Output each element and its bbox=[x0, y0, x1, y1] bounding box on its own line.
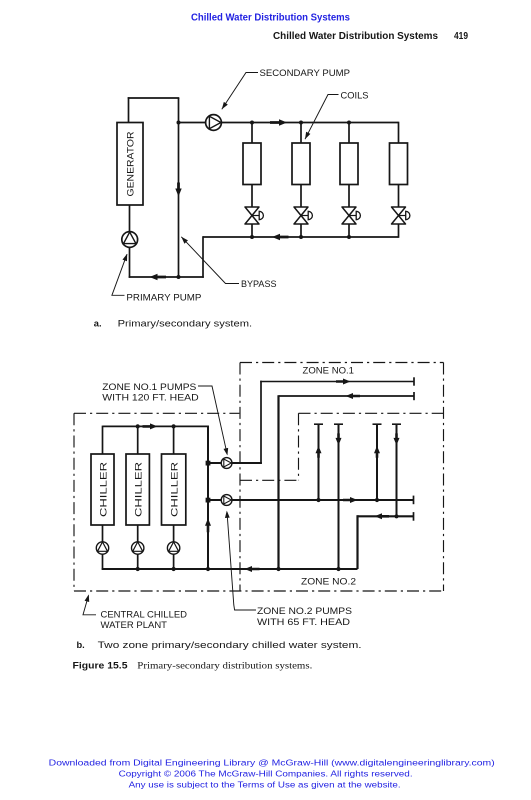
wire: zone 2 return main bbox=[358, 515, 414, 517]
leader zone 1 pumps bbox=[198, 386, 227, 454]
wire: coil return line bbox=[203, 236, 399, 238]
coil 2 wire to valve bbox=[300, 185, 302, 208]
valve 1 wire to return bbox=[251, 224, 253, 237]
zone 2 box top bbox=[299, 412, 444, 414]
flow arrow left zone 2 return bbox=[375, 513, 390, 519]
wire: branch to secondary pump bbox=[179, 122, 206, 124]
leader bypass bbox=[181, 237, 239, 284]
valve 3 bbox=[342, 207, 356, 224]
wire: primary pump to bottom line bbox=[129, 247, 131, 277]
coil 4 bbox=[390, 143, 408, 185]
wire: loop top line (diagram a) bbox=[128, 97, 180, 99]
zone riser 1 bbox=[318, 424, 320, 500]
svg-text:SECONDARY PUMP: SECONDARY PUMP bbox=[260, 68, 351, 78]
coil 3 drop wire bbox=[348, 123, 350, 144]
junction dots return line bbox=[250, 235, 254, 239]
svg-text:WITH 65 FT. HEAD: WITH 65 FT. HEAD bbox=[257, 617, 350, 627]
coil columns bbox=[243, 122, 410, 238]
leader zone 2 pumps bbox=[227, 512, 256, 610]
zone pump 1 bbox=[221, 458, 232, 469]
junction dots supply line bbox=[250, 121, 254, 125]
valve 4 wire to return bbox=[398, 224, 400, 238]
bypass line bbox=[178, 98, 180, 277]
svg-text:CHILLER: CHILLER bbox=[98, 462, 108, 517]
chiller pump 1 bbox=[96, 542, 108, 554]
zone riser 2 bbox=[338, 424, 340, 569]
zone pump 2 bbox=[221, 495, 232, 506]
svg-text:WATER PLANT: WATER PLANT bbox=[101, 620, 168, 630]
valve 3 wire to return bbox=[348, 224, 350, 237]
junction square riser/pump1 stub bbox=[206, 461, 211, 466]
svg-text:ZONE NO.2 PUMPS: ZONE NO.2 PUMPS bbox=[257, 606, 352, 616]
valve 1 bbox=[245, 207, 259, 224]
wire: chiller 3 to pump bbox=[173, 525, 175, 542]
zone boundary inner horizontal bbox=[240, 479, 299, 481]
chiller 2 bbox=[126, 454, 149, 525]
svg-text:Two zone primary/secondary chi: Two zone primary/secondary chilled water… bbox=[98, 640, 362, 650]
junction dot header/chiller2 bbox=[136, 424, 140, 428]
svg-text:WITH 120 FT. HEAD: WITH 120 FT. HEAD bbox=[102, 393, 199, 403]
junction square riser/pump2 stub bbox=[206, 498, 211, 503]
primary pump P1 bbox=[122, 232, 138, 248]
coil 4 wire to valve bbox=[398, 185, 400, 208]
flow arrow left on return line bbox=[272, 234, 289, 240]
junction dot zone 2 return / riser 4 bbox=[394, 514, 398, 518]
leader coils bbox=[305, 95, 339, 140]
svg-text:ZONE NO.1 PUMPS: ZONE NO.1 PUMPS bbox=[102, 382, 196, 392]
chiller 1 bbox=[91, 454, 114, 525]
flow arrow left on bottom line bbox=[150, 274, 167, 280]
wire: zone 1 supply main bbox=[260, 381, 414, 383]
svg-text:CENTRAL CHILLED: CENTRAL CHILLED bbox=[101, 610, 188, 620]
svg-text:GENERATOR: GENERATOR bbox=[126, 131, 136, 196]
flow arrow up on riser bbox=[205, 518, 211, 532]
end tick zone 1 return bbox=[413, 392, 415, 400]
junction dot bypass/bottom line bbox=[177, 275, 181, 279]
wire: stub to zone pump 1 bbox=[208, 462, 222, 464]
shared right boundary bbox=[443, 363, 445, 592]
zone 1 box top bbox=[240, 362, 444, 364]
svg-text:a.: a. bbox=[94, 319, 102, 329]
flow arrow right on supply line bbox=[270, 119, 287, 125]
svg-text:419: 419 bbox=[454, 31, 469, 42]
flow arrow down on bypass bbox=[175, 183, 181, 197]
junction dots return header bbox=[136, 567, 140, 571]
zone 1 box left / plant right boundary bbox=[239, 363, 241, 592]
svg-text:CHILLER: CHILLER bbox=[134, 462, 144, 517]
svg-text:Chilled Water Distribution Sys: Chilled Water Distribution Systems bbox=[191, 13, 350, 24]
end tick zone 2 return bbox=[413, 512, 415, 521]
svg-text:CHILLER: CHILLER bbox=[169, 462, 179, 517]
wire: loop left vertical to generator top bbox=[128, 97, 130, 122]
flow arrow right zone 2 supply bbox=[343, 497, 358, 503]
end tick zone 2 supply bbox=[413, 496, 415, 505]
junction dot bypass/pump branch bbox=[177, 121, 181, 125]
zone 2 box left bbox=[298, 413, 300, 480]
svg-text:Chilled Water Distribution Sys: Chilled Water Distribution Systems bbox=[273, 31, 438, 42]
valve 2 wire to return bbox=[300, 224, 302, 237]
wire: return step vertical bbox=[202, 236, 204, 278]
wire: chiller 1 top drop bbox=[102, 426, 104, 454]
svg-text:BYPASS: BYPASS bbox=[241, 279, 277, 289]
wire: bottom return line bbox=[129, 276, 204, 278]
chiller 3 bbox=[162, 454, 186, 525]
plant box top bbox=[74, 412, 239, 414]
wire: chiller 1 to pump bbox=[102, 525, 104, 542]
generator bbox=[117, 123, 143, 206]
flow arrow left zone 1 return bbox=[346, 393, 361, 399]
plant box left bbox=[73, 413, 75, 591]
svg-text:PRIMARY PUMP: PRIMARY PUMP bbox=[126, 293, 201, 303]
shared bottom boundary bbox=[74, 590, 444, 592]
svg-text:Primary-secondary distribution: Primary-secondary distribution systems. bbox=[137, 662, 312, 672]
coil 4 drop wire bbox=[398, 122, 400, 143]
coil 2 bbox=[292, 143, 310, 185]
svg-text:Copyright © 2006 The McGraw-Hi: Copyright © 2006 The McGraw-Hill Compani… bbox=[119, 768, 413, 778]
leader central plant bbox=[83, 596, 96, 615]
leader primary pump bbox=[112, 254, 127, 295]
wire: generator bottom to primary pump bbox=[129, 205, 131, 232]
coil 1 bbox=[243, 143, 261, 185]
labels diagram a bbox=[126, 68, 368, 303]
flow arrow right on supply header bbox=[143, 423, 158, 429]
wire: zone 1 supply riser bbox=[260, 381, 262, 464]
labels diagram b bbox=[101, 365, 357, 630]
wire: zone pump 1 outlet bbox=[232, 462, 262, 464]
svg-text:Any use is subject to the Term: Any use is subject to the Terms of Use a… bbox=[129, 780, 401, 790]
wire: pump 1 to return header bbox=[102, 554, 104, 570]
secondary pump P2 bbox=[206, 115, 222, 131]
svg-text:Figure 15.5: Figure 15.5 bbox=[73, 661, 128, 671]
wire: zone 1 return riser bbox=[277, 395, 279, 569]
wire: stub to zone pump 2 bbox=[208, 499, 222, 501]
wire: zone 2 return drop bbox=[356, 515, 358, 569]
wire: pump 3 to return header bbox=[173, 554, 175, 569]
coil 2 drop wire bbox=[300, 123, 302, 144]
svg-text:COILS: COILS bbox=[341, 90, 369, 100]
wire: plant riser bbox=[207, 426, 209, 569]
svg-text:Primary/secondary system.: Primary/secondary system. bbox=[118, 319, 253, 329]
svg-text:Downloaded from Digital Engine: Downloaded from Digital Engineering Libr… bbox=[49, 757, 495, 767]
wire: zone 1 return main bbox=[279, 395, 415, 397]
zone riser 4 bbox=[396, 424, 398, 516]
junction dot header/chiller3 bbox=[172, 424, 176, 428]
flow arrow right zone 1 supply bbox=[336, 379, 351, 385]
wire: zone 2 supply main bbox=[232, 499, 414, 501]
coil 1 drop wire bbox=[251, 123, 253, 144]
wire: chiller 2 to pump bbox=[137, 525, 139, 542]
svg-text:ZONE NO.1: ZONE NO.1 bbox=[303, 365, 355, 375]
coil 1 wire to valve bbox=[251, 185, 253, 208]
plant boundary (dash-dot) bbox=[74, 363, 444, 592]
leader secondary pump bbox=[222, 73, 258, 110]
wire: chiller supply header bbox=[103, 425, 209, 427]
wire: pump 2 to return header bbox=[137, 554, 139, 569]
junction dots zone 2 supply bbox=[316, 498, 320, 502]
flow arrow left on return header bbox=[245, 566, 260, 572]
wire: chiller 2 top drop bbox=[137, 426, 139, 454]
valve 4 bbox=[392, 207, 406, 224]
coil 3 wire to valve bbox=[348, 185, 350, 208]
wire: supply line to coils bbox=[221, 122, 398, 124]
end tick zone 1 supply bbox=[413, 377, 415, 385]
wire: chiller 3 top drop bbox=[173, 426, 175, 454]
svg-text:ZONE NO.2: ZONE NO.2 bbox=[301, 577, 356, 587]
chiller pump 3 bbox=[167, 542, 179, 554]
valve 2 bbox=[294, 207, 308, 224]
zone riser 3 bbox=[376, 424, 378, 500]
svg-text:b.: b. bbox=[77, 640, 85, 650]
chiller pump 2 bbox=[132, 542, 144, 554]
wire: plant return header bbox=[102, 568, 358, 570]
coil 3 bbox=[340, 143, 358, 185]
